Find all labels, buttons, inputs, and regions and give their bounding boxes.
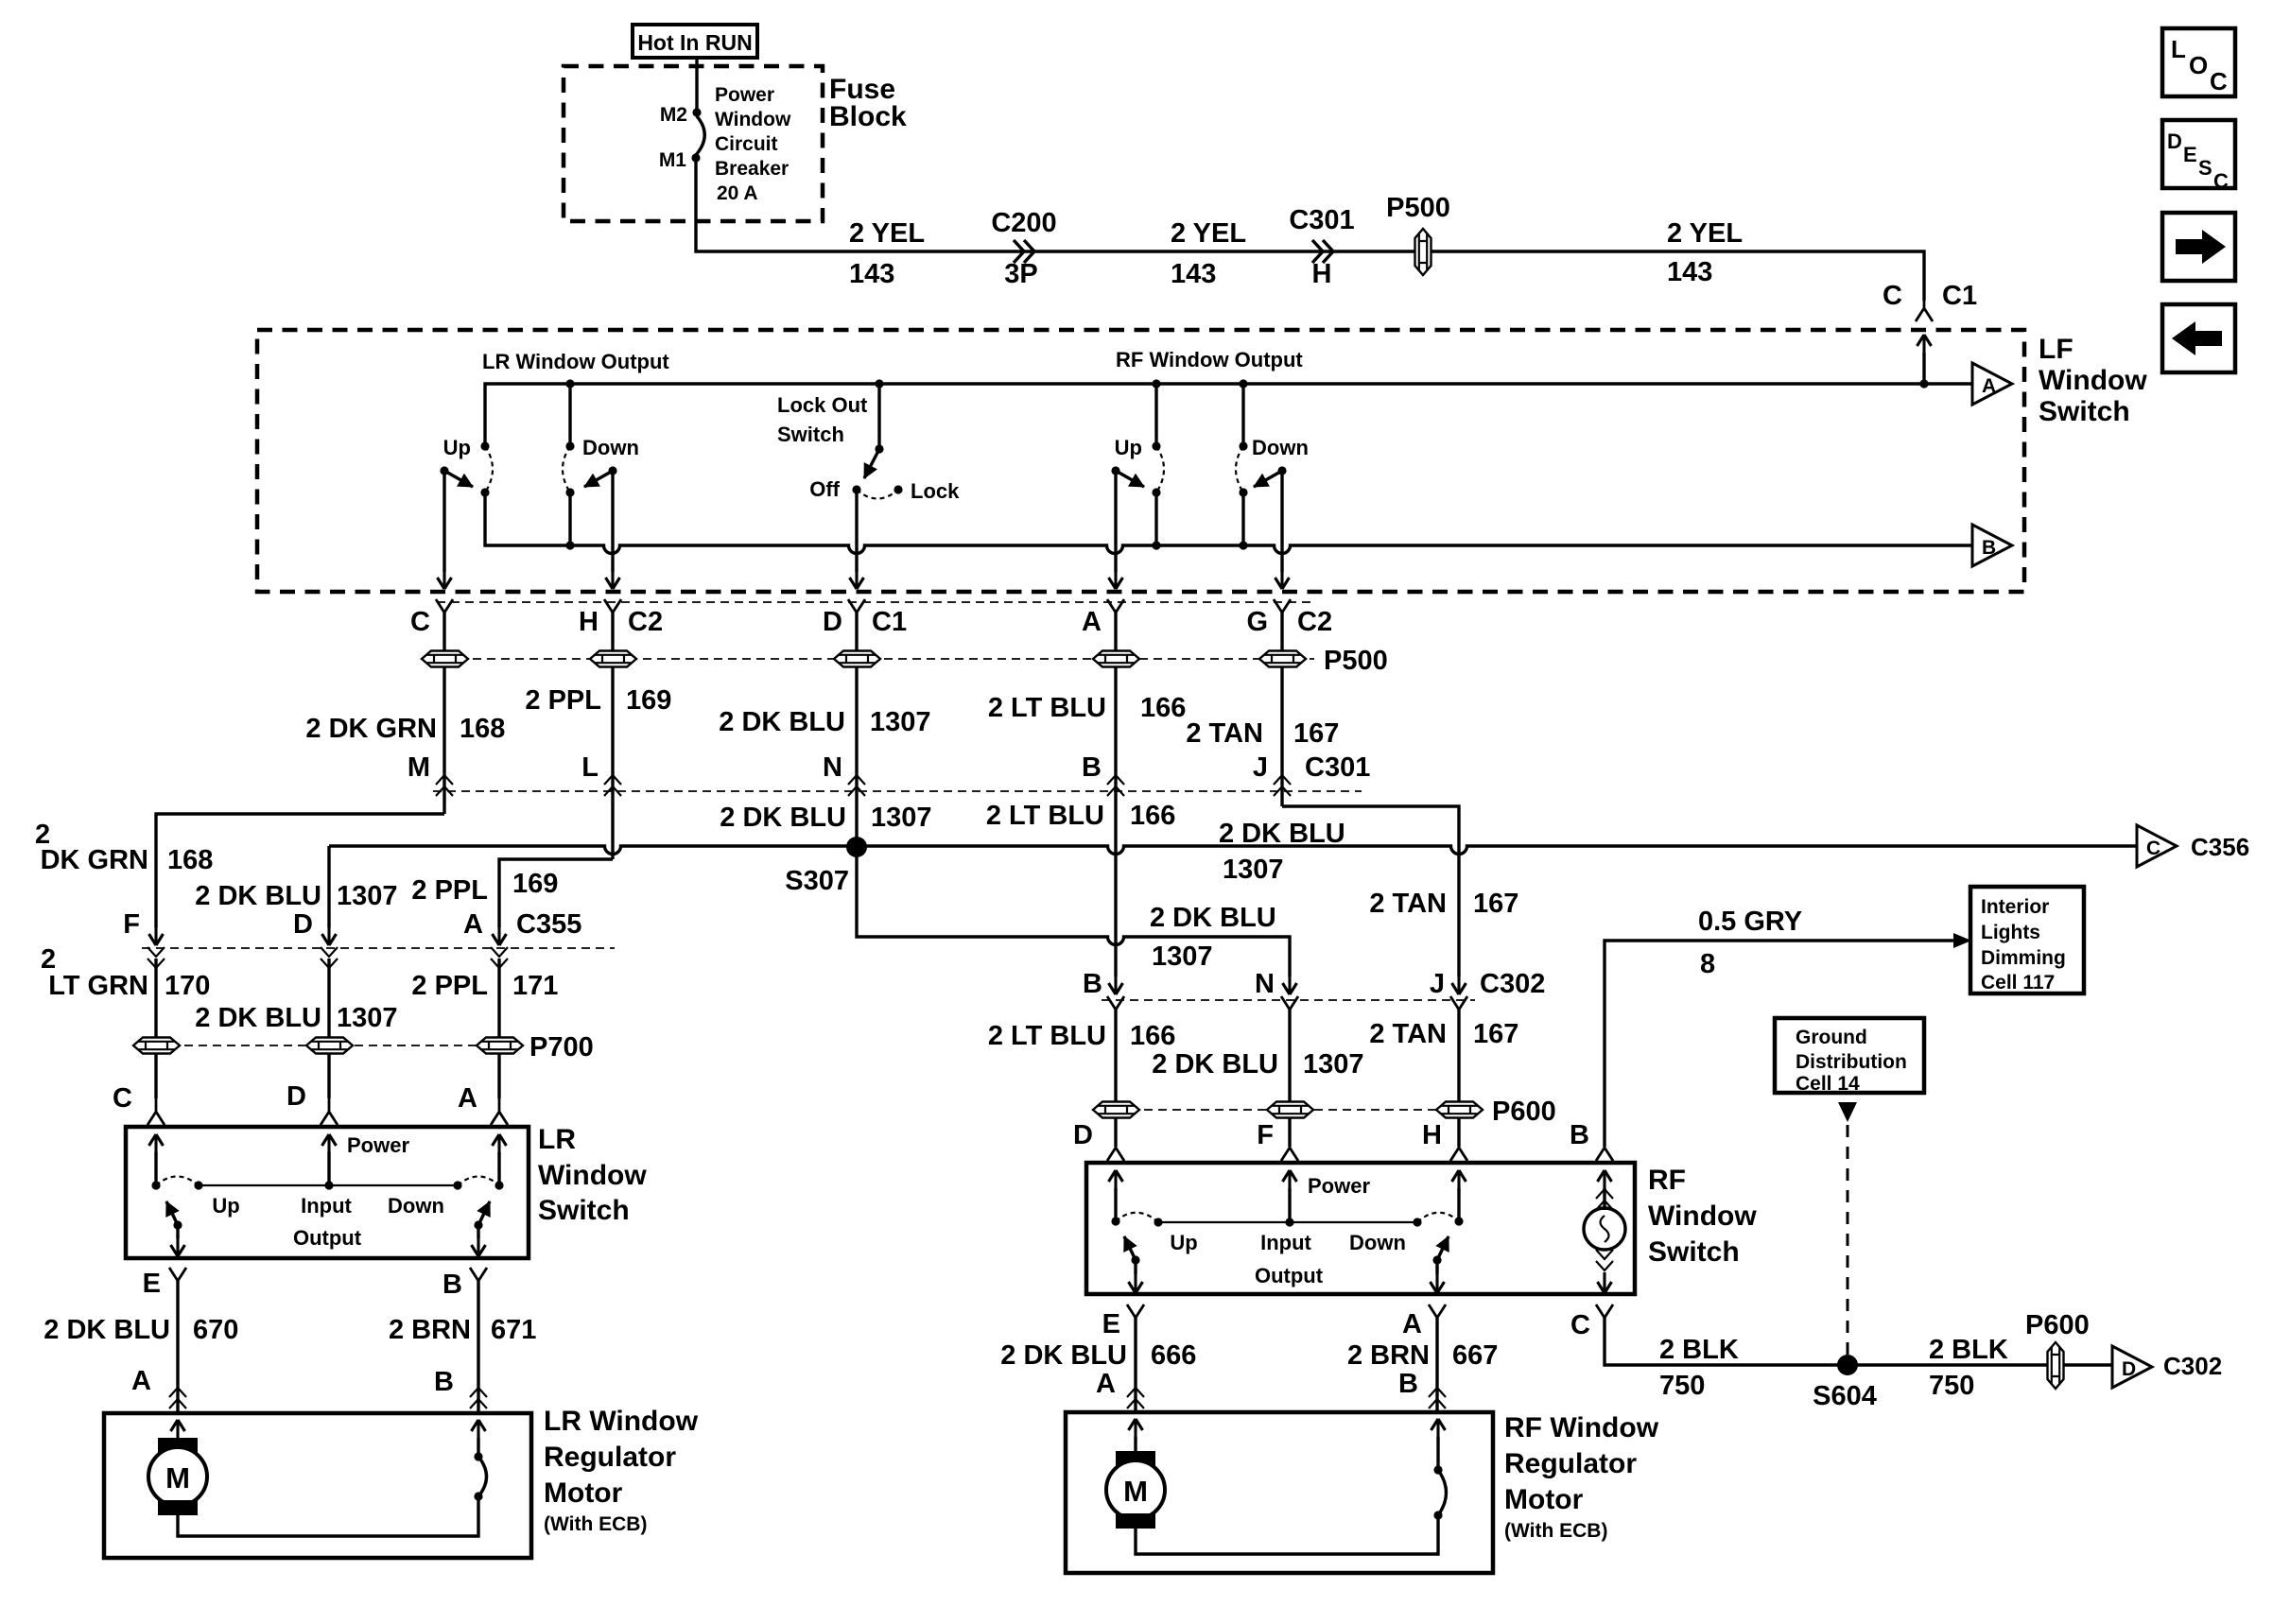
Fuse Block label [829, 74, 907, 132]
pin N of C302 [1255, 969, 1298, 1030]
pin A of RF window switch [1402, 1304, 1446, 1339]
grommet P500 on wire H [590, 651, 636, 667]
svg-text:Power: Power [347, 1133, 409, 1157]
svg-text:RF: RF [1648, 1165, 1686, 1196]
svg-text:D: D [2167, 130, 2182, 153]
svg-text:1307: 1307 [1303, 1049, 1364, 1080]
terminal M1 [659, 149, 701, 171]
wire: bus B (window output return, lower) with crossover humps [485, 492, 1972, 554]
RF switch dashed arc D to Up [1116, 1213, 1158, 1222]
svg-text:20 A: 20 A [717, 182, 758, 204]
svg-text:C: C [1570, 1310, 1590, 1340]
circuit breaker text [715, 84, 791, 204]
wire: L column jog left and down to C355 pin A [499, 859, 613, 927]
svg-text:M: M [1123, 1475, 1148, 1508]
svg-text:143: 143 [849, 259, 894, 289]
svg-text:2 DK GRN: 2 DK GRN [305, 714, 437, 744]
svg-text:168: 168 [167, 845, 213, 875]
connector C301 dashed boundary [433, 790, 1362, 792]
grommet P600 (bottom right) [2025, 1310, 2090, 1389]
svg-text:L: L [581, 752, 599, 783]
wire: output E exit arrow [171, 1225, 185, 1256]
wire label 2 BLK 750 (left) [1659, 1335, 1739, 1401]
connector C355 dashed boundary [142, 947, 615, 949]
wire label 2 LT BLU 166 (below C302) [988, 1021, 1176, 1051]
svg-text:F: F [1257, 1120, 1274, 1150]
illumination lamp in RF switch [1584, 1189, 1625, 1270]
LR Up switch arm [440, 436, 473, 487]
wire: A to RF motor pin B [1435, 1318, 1438, 1412]
wire: F column C355 to LR switch pin C [154, 959, 157, 1098]
svg-text:Down: Down [582, 436, 639, 459]
wire label 2 YEL 143 (first segment) [849, 218, 925, 289]
wire: RF Down arm down to pin G exit [1275, 471, 1290, 589]
svg-text:Window: Window [2039, 365, 2147, 396]
svg-text:Dimming: Dimming [1981, 947, 2066, 969]
svg-text:167: 167 [1473, 1019, 1518, 1049]
connector triangle B [1972, 525, 2012, 566]
pin E of RF window switch [1102, 1304, 1144, 1339]
svg-text:C: C [1883, 281, 1902, 311]
svg-text:Output: Output [293, 1226, 362, 1250]
svg-text:L: L [2171, 35, 2186, 63]
pin A of LR window switch [458, 1083, 508, 1125]
svg-text:Lock: Lock [911, 479, 960, 503]
svg-text:2 PPL: 2 PPL [411, 971, 488, 1001]
RF switch pin H entry arrow and wire [1452, 1170, 1466, 1221]
svg-text:Lock Out: Lock Out [777, 393, 868, 417]
svg-text:168: 168 [460, 714, 505, 744]
motor M (RF) [1106, 1451, 1165, 1529]
wire: RF switch pin C to ground, 2 BLK 750 [1605, 1318, 2112, 1365]
svg-text:Breaker: Breaker [715, 158, 789, 180]
wire label 2 YEL 143 (third segment) [1667, 218, 1743, 287]
svg-text:H: H [1312, 259, 1332, 289]
pin D of LR window switch [286, 1081, 338, 1125]
svg-text:Switch: Switch [1648, 1236, 1740, 1268]
svg-text:2 YEL: 2 YEL [849, 218, 925, 249]
wire label 2 PPL 169 [525, 685, 671, 716]
svg-text:A: A [1402, 1309, 1422, 1339]
LR switch pin A entry arrow and wire [493, 1134, 507, 1185]
svg-text:2 DK BLU: 2 DK BLU [43, 1315, 170, 1345]
RF Up switch arm [1111, 436, 1144, 487]
wire label 2 YEL 143 (second segment) [1171, 218, 1246, 289]
LR switch pin C entry arrow and wire [149, 1134, 164, 1185]
wire: S307 bus to C356 with crossover humps [329, 846, 2137, 855]
svg-text:J: J [1430, 969, 1445, 999]
svg-text:667: 667 [1452, 1340, 1498, 1371]
wire label 2 DK BLU 1307 (below C302) [1152, 1049, 1363, 1080]
pin C1-C entry arrow into switch [1917, 335, 1932, 389]
legend icon arrow right [2162, 213, 2235, 281]
lockout switch arm to Off [864, 449, 879, 478]
wire: S307 down and right branch to C302 pin N [857, 847, 1290, 976]
pin C of connector C1 at LF window switch [1883, 281, 1977, 321]
grommet P500 on wire A [1093, 651, 1139, 667]
svg-text:1307: 1307 [337, 881, 398, 911]
wire: J column C302 to RF switch pin H [1457, 1010, 1460, 1147]
svg-text:2 DK BLU: 2 DK BLU [1000, 1340, 1127, 1371]
svg-text:D: D [2122, 1358, 2136, 1380]
lockout Lock contact [857, 479, 960, 503]
svg-text:A: A [458, 1083, 477, 1114]
LF Window Switch label [2039, 334, 2147, 427]
wire label 2 LT BLU 166 [988, 693, 1187, 723]
svg-text:666: 666 [1151, 1340, 1196, 1371]
svg-text:143: 143 [1667, 257, 1712, 287]
LR Window Regulator Motor label [544, 1406, 699, 1535]
svg-text:750: 750 [1659, 1371, 1705, 1401]
wire label 2 TAN 167 (below C302) [1369, 1019, 1518, 1049]
wire: output B exit arrow [472, 1225, 486, 1256]
wire: D column C355 to LR switch pin D [327, 959, 330, 1098]
wire from Hot In RUN into fuse block to M2 [695, 60, 698, 112]
arrow into interior lights dimming [1953, 933, 1971, 948]
svg-text:2 DK BLU: 2 DK BLU [195, 1003, 321, 1033]
wire: H column C2 to C301 [611, 613, 614, 859]
connector triangle C to C356 [2137, 825, 2249, 867]
wire: G column C2 to corner [1280, 613, 1283, 806]
svg-text:Motor: Motor [544, 1477, 623, 1509]
grommet P500 on wire G [1259, 646, 1388, 676]
wire: LR Up arm down to pin C exit [438, 471, 452, 589]
grommet P500 dashed pass-through line [430, 658, 1314, 660]
pin B of RF window switch [1570, 1120, 1613, 1161]
pin D of RF window switch [1073, 1120, 1124, 1161]
svg-text:A: A [463, 909, 483, 940]
wire label 2 DK BLU 1307 (bus to C356) [1219, 819, 1345, 885]
svg-text:171: 171 [512, 971, 558, 1001]
svg-text:2 LT BLU: 2 LT BLU [988, 1021, 1106, 1051]
svg-text:A: A [1096, 1369, 1116, 1399]
LR Up switch contacts [480, 441, 493, 496]
svg-text:C: C [2213, 169, 2229, 193]
connector triangle D to C302 [2112, 1346, 2222, 1388]
svg-text:E: E [2183, 143, 2197, 166]
svg-text:Down: Down [388, 1194, 444, 1218]
svg-text:2 BRN: 2 BRN [389, 1315, 471, 1345]
svg-text:B: B [1082, 752, 1102, 783]
svg-text:2 LT BLU: 2 LT BLU [988, 693, 1106, 723]
svg-text:C301: C301 [1289, 205, 1354, 235]
grommet P600 dashed pass-through line [1102, 1109, 1471, 1111]
svg-text:Up: Up [443, 436, 471, 459]
pin E of LR window switch [143, 1268, 186, 1302]
wire label 2 DK BLU 1307 [719, 707, 930, 737]
pin C of C2 [410, 599, 453, 637]
svg-text:Ground: Ground [1796, 1027, 1867, 1048]
Interior Lights Dimming Cell 117 box [1970, 887, 2084, 993]
RF Up switch contacts [1152, 379, 1164, 549]
pin N of C301 [823, 752, 865, 796]
svg-text:167: 167 [1473, 889, 1518, 919]
svg-text:2 TAN: 2 TAN [1369, 889, 1447, 919]
svg-text:N: N [823, 752, 842, 783]
svg-text:2 TAN: 2 TAN [1186, 718, 1263, 749]
dashed wire ground distribution to S604 [1847, 1125, 1849, 1357]
svg-text:H: H [579, 607, 599, 637]
svg-text:F: F [123, 909, 140, 940]
RF switch output E arm [1124, 1236, 1140, 1265]
RF switch output A arm [1432, 1236, 1449, 1265]
RF switch dashed arc Down to H [1417, 1213, 1459, 1222]
grommet P700 on wire F [133, 1038, 180, 1054]
ECB breaker (RF motor) [1431, 1419, 1447, 1520]
svg-text:Down: Down [1349, 1231, 1406, 1254]
svg-text:A: A [1082, 607, 1102, 637]
RF motor pin A entry arrow [1129, 1419, 1143, 1453]
RF motor box [1066, 1412, 1493, 1573]
lockout Off contact [809, 477, 860, 501]
Ground Distribution Cell 14 box [1775, 1018, 1924, 1095]
svg-text:170: 170 [165, 971, 210, 1001]
wire label 2 DK BLU 670 [43, 1315, 238, 1345]
grommet P600 on wire H [1436, 1097, 1556, 1127]
svg-text:LR Window Output: LR Window Output [482, 350, 669, 373]
svg-text:Interior: Interior [1981, 896, 2049, 918]
wire: J column jog right to C302 pin J [1282, 806, 1459, 976]
svg-text:2 DK BLU: 2 DK BLU [195, 881, 321, 911]
svg-text:P600: P600 [1492, 1097, 1556, 1127]
wire label 2 DK GRN 168 [305, 714, 505, 744]
wire: D column from S307 bus corner down to C355 pin D [327, 846, 330, 927]
RF Window Regulator Motor label [1504, 1412, 1659, 1542]
wire label 2 BRN 667 [1347, 1340, 1498, 1371]
pin D of C355 [293, 909, 338, 968]
svg-text:Up: Up [1170, 1231, 1197, 1254]
wire label 2 DK GRN 168 (left margin) [35, 820, 213, 875]
svg-text:Motor: Motor [1504, 1484, 1584, 1515]
wire: LR motor bottom loop [178, 1499, 478, 1536]
wire: E to LR motor pin A [176, 1281, 179, 1413]
LR switch contact labels [212, 1194, 444, 1250]
legend icon LOC [2162, 28, 2235, 96]
svg-text:Off: Off [809, 477, 840, 501]
svg-text:8: 8 [1700, 949, 1715, 979]
svg-text:P600: P600 [2025, 1310, 2090, 1340]
LR switch dashed arc Down to A [458, 1177, 499, 1186]
pin M of C301 [408, 752, 453, 796]
svg-text:C2: C2 [628, 607, 663, 637]
pin B of LR window switch [442, 1268, 487, 1302]
svg-text:2 PPL: 2 PPL [411, 875, 488, 906]
svg-text:C302: C302 [2163, 1352, 2222, 1380]
svg-text:Block: Block [829, 101, 907, 132]
svg-text:Input: Input [301, 1194, 352, 1218]
svg-text:B: B [1398, 1369, 1418, 1399]
svg-text:B: B [442, 1270, 462, 1300]
svg-text:Lights: Lights [1981, 922, 2040, 943]
splice S604 [1813, 1355, 1877, 1411]
motor M (LR) [148, 1438, 207, 1515]
svg-text:1307: 1307 [1152, 942, 1213, 972]
svg-text:H: H [1422, 1120, 1442, 1150]
svg-text:M2: M2 [660, 104, 687, 126]
svg-text:2 DK BLU: 2 DK BLU [720, 803, 846, 833]
grommet P600 on wire D [1093, 1102, 1139, 1118]
svg-text:D: D [823, 607, 842, 637]
svg-text:Window: Window [538, 1160, 647, 1191]
pin B of RF motor [1398, 1369, 1446, 1408]
wire label 2 PPL 171 [411, 971, 558, 1001]
LF window switch box [257, 330, 2024, 592]
svg-text:2 YEL: 2 YEL [1171, 218, 1246, 249]
LR Window Switch label [538, 1124, 647, 1226]
pin J of C301 [1253, 752, 1370, 796]
svg-text:Distribution: Distribution [1796, 1051, 1907, 1073]
svg-text:Up: Up [1115, 436, 1142, 459]
RF switch pin F (Power input) entry arrow and wire [1283, 1170, 1371, 1222]
svg-text:Window: Window [715, 109, 791, 130]
wire: D column C2 to S307 [855, 613, 858, 847]
svg-text:E: E [143, 1269, 161, 1299]
svg-text:D: D [286, 1081, 306, 1112]
svg-text:S604: S604 [1813, 1381, 1877, 1411]
svg-text:B: B [1570, 1120, 1589, 1150]
grommet P500 (top) [1386, 193, 1450, 275]
svg-text:P500: P500 [1386, 193, 1450, 223]
wire: B to LR motor pin B [477, 1281, 479, 1413]
pin G of C2 [1246, 599, 1332, 637]
svg-text:Up: Up [212, 1194, 239, 1218]
pin H of RF window switch [1422, 1120, 1467, 1161]
svg-text:Input: Input [1260, 1231, 1311, 1254]
Hot In RUN callout box [633, 25, 757, 58]
svg-text:D: D [1073, 1120, 1093, 1150]
wire label 2 TAN 167 (J column) [1369, 889, 1518, 919]
svg-text:C1: C1 [1942, 281, 1977, 311]
grommet P700 on wire D [306, 1038, 353, 1054]
svg-text:0.5 GRY: 0.5 GRY [1698, 907, 1802, 937]
RF switch pin B entry arrow [1598, 1170, 1612, 1210]
svg-text:N: N [1255, 969, 1275, 999]
svg-text:671: 671 [491, 1315, 536, 1345]
svg-text:2 DK BLU: 2 DK BLU [719, 707, 845, 737]
svg-text:C301: C301 [1305, 752, 1370, 783]
connector C301 pin H [1289, 205, 1354, 289]
svg-text:2 LT BLU: 2 LT BLU [986, 801, 1104, 831]
LR switch dashed arc C to Up [156, 1177, 199, 1186]
grommet P500 on wire D [834, 651, 880, 667]
lockout switch pivot [875, 379, 883, 453]
svg-text:Switch: Switch [538, 1195, 630, 1226]
svg-text:DK GRN: DK GRN [41, 845, 148, 875]
svg-text:LR: LR [538, 1124, 576, 1155]
RF switch pin D entry arrow and wire [1109, 1170, 1123, 1221]
svg-text:2 YEL: 2 YEL [1667, 218, 1743, 249]
wire label 2 DK BLU 666 [1000, 1340, 1196, 1371]
LR motor pin A entry arrow [171, 1420, 185, 1449]
pin F of C355 [123, 909, 165, 968]
wire: A column C355 to LR switch pin A [497, 959, 500, 1098]
legend icon DESC [2162, 120, 2235, 193]
grommet P700 on wire A [477, 1032, 594, 1063]
svg-text:G: G [1246, 607, 1268, 637]
svg-text:M: M [165, 1461, 190, 1494]
svg-text:Down: Down [1252, 436, 1309, 459]
svg-text:B: B [434, 1367, 454, 1397]
svg-text:Hot In RUN: Hot In RUN [637, 30, 752, 55]
wire: RF switch pin B up to interior lights dimming [1605, 941, 1953, 1147]
wire: A column C2 to C302 [1114, 613, 1117, 976]
wire label 2 DK BLU 1307 (above S307) [720, 803, 931, 833]
legend icon arrow left [2162, 304, 2235, 372]
svg-text:E: E [1102, 1309, 1120, 1339]
LR switch contact bar Up-Input-Down [151, 1181, 503, 1189]
svg-text:Switch: Switch [2039, 396, 2130, 427]
svg-text:2 BRN: 2 BRN [1347, 1340, 1430, 1371]
wire: C column C2 to C301 [442, 613, 445, 814]
pin C of LR window switch [113, 1083, 165, 1125]
svg-text:B: B [1982, 537, 1996, 559]
pin A of C2 [1082, 599, 1124, 637]
wire: RF motor bottom loop [1136, 1518, 1438, 1554]
wire: bus A (window output feed, upper) [485, 384, 1972, 446]
svg-text:(With ECB): (With ECB) [1504, 1520, 1607, 1542]
svg-text:Regulator: Regulator [1504, 1448, 1637, 1479]
LR Down switch arm [582, 436, 639, 487]
svg-text:LT GRN: LT GRN [48, 971, 148, 1001]
wire: RF output E exit arrow [1129, 1260, 1143, 1293]
wire label 2 LT GRN 170 [41, 944, 210, 1001]
RF Down switch contacts [1236, 379, 1248, 549]
pin A of RF motor [1096, 1369, 1144, 1408]
svg-text:C: C [410, 607, 430, 637]
svg-text:RF Window: RF Window [1504, 1412, 1659, 1443]
RF Window Switch label [1648, 1165, 1757, 1268]
svg-text:166: 166 [1140, 693, 1186, 723]
wire: RF Up arm down to pin A exit [1109, 471, 1123, 589]
pin A of C355 [463, 909, 581, 968]
connector C2/C1 dashed boundary [437, 601, 1316, 603]
Lock Out Switch label [777, 393, 868, 446]
wire label 2 DK BLU 1307 (branch) [1150, 903, 1276, 972]
svg-text:Power: Power [715, 84, 774, 106]
svg-text:2 PPL: 2 PPL [525, 685, 601, 716]
svg-text:C302: C302 [1480, 969, 1545, 999]
pin H of C2 [579, 599, 663, 637]
svg-text:C200: C200 [991, 208, 1056, 238]
svg-text:2 TAN: 2 TAN [1369, 1019, 1447, 1049]
RF Down switch arm [1252, 436, 1309, 487]
connector C302 dashed boundary [1102, 999, 1475, 1001]
svg-text:B: B [1083, 969, 1102, 999]
connector triangle A [1972, 363, 2012, 405]
wire: RF output A exit arrow [1431, 1260, 1445, 1293]
wire label 2 LT BLU 166 (B column) [986, 801, 1176, 831]
svg-text:(With ECB): (With ECB) [544, 1513, 647, 1535]
svg-text:D: D [293, 909, 313, 940]
svg-text:S307: S307 [785, 866, 849, 896]
terminal M2 [660, 104, 702, 126]
wire: E to RF motor pin A [1134, 1318, 1136, 1412]
pin B of C301 [1082, 752, 1124, 796]
svg-text:Window: Window [1648, 1201, 1757, 1232]
svg-text:A: A [1982, 375, 1996, 397]
LR switch output E arm [166, 1201, 182, 1230]
svg-text:1307: 1307 [870, 707, 931, 737]
svg-text:LR Window: LR Window [544, 1406, 699, 1437]
svg-text:Circuit: Circuit [715, 133, 778, 155]
pin L of C301 [581, 752, 621, 796]
svg-text:1307: 1307 [337, 1003, 398, 1033]
svg-text:C: C [113, 1083, 132, 1114]
svg-text:2 DK BLU: 2 DK BLU [1152, 1049, 1278, 1080]
svg-text:2 DK BLU: 2 DK BLU [1219, 819, 1345, 849]
wire from M1 down and right to LF window switch pin C [696, 162, 1924, 301]
svg-text:A: A [131, 1366, 151, 1396]
